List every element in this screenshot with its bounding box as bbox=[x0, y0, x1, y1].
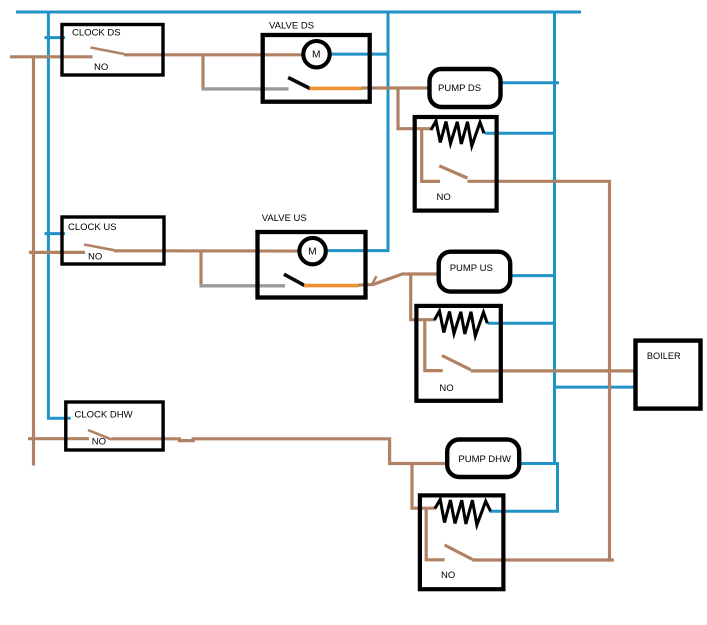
wire brown left vertical bus bbox=[32, 57, 35, 466]
wire blue VALVE DS motor to mid vertical bbox=[331, 53, 390, 56]
wire blue relay US coil to right bus bbox=[488, 322, 555, 325]
wire brown tee down to relay DS coil bbox=[398, 88, 432, 129]
wire brown relay US internal L to switch bbox=[425, 319, 443, 371]
wire gray into VALVE US switch bbox=[200, 284, 286, 287]
svg-text:NO: NO bbox=[88, 252, 102, 263]
svg-text:M: M bbox=[312, 50, 321, 61]
wire blue stub into CLOCK US bbox=[45, 232, 66, 235]
wire brown CLOCK US output to VALVE US motor bbox=[114, 249, 300, 252]
wire blue VALVE US motor to mid vertical bbox=[326, 249, 390, 252]
wire brown CLOCK DHW output segment with jog bbox=[112, 439, 449, 464]
boiler box bbox=[636, 341, 701, 409]
relay DS box bbox=[415, 117, 497, 211]
relay US coil bbox=[434, 311, 487, 336]
wire brown relay DS internal L to switch bbox=[422, 128, 440, 181]
wire blue PUMP US to right bus bbox=[510, 274, 557, 277]
valve US box bbox=[258, 232, 366, 298]
svg-text:PUMP US: PUMP US bbox=[450, 263, 493, 274]
relay DS coil bbox=[431, 121, 484, 146]
motor M valve DS bbox=[303, 41, 329, 67]
wire brown VALVE US output rising to PUMP US bbox=[358, 274, 439, 285]
clock DS box bbox=[62, 25, 163, 76]
wire brown relay US output to BOILER bbox=[471, 369, 637, 372]
wire brown row1 feed into CLOCK DS bbox=[10, 55, 93, 58]
svg-text:VALVE DS: VALVE DS bbox=[269, 21, 314, 32]
switch relay DS blade bbox=[439, 166, 467, 178]
wire brown VALVE DS output to PUMP DS bbox=[362, 86, 431, 89]
svg-text:CLOCK DHW: CLOCK DHW bbox=[75, 410, 133, 421]
valve DS box bbox=[263, 35, 370, 102]
pump US box bbox=[439, 252, 511, 292]
switch VALVE US blade bbox=[284, 274, 305, 285]
wire brown tee down to relay DHW coil bbox=[412, 464, 436, 509]
wire brown barb on hand-drawn US riser bbox=[373, 276, 377, 284]
wire orange VALVE US switch output bbox=[304, 284, 359, 288]
switch CLOCK DHW blade bbox=[88, 430, 112, 439]
svg-text:CLOCK US: CLOCK US bbox=[68, 222, 117, 233]
motor M valve US bbox=[299, 238, 325, 264]
switch CLOCK DS blade bbox=[91, 48, 125, 55]
svg-text:PUMP DHW: PUMP DHW bbox=[458, 454, 511, 465]
wire brown tee down to relay US coil bbox=[411, 274, 435, 320]
svg-text:NO: NO bbox=[437, 192, 451, 203]
svg-text:CLOCK DS: CLOCK DS bbox=[72, 28, 121, 39]
wire brown CLOCK DS output to VALVE DS motor bbox=[124, 53, 303, 56]
switch VALVE DS blade bbox=[288, 78, 310, 89]
wire blue mid vertical to valve motors bbox=[387, 11, 390, 251]
svg-text:M: M bbox=[308, 246, 317, 257]
wire blue PUMP DS to right bus bbox=[500, 81, 559, 84]
clock US box bbox=[62, 217, 164, 264]
wire gray into VALVE DS switch bbox=[202, 87, 289, 90]
wire brown row3 feed into CLOCK DHW bbox=[28, 437, 89, 440]
wire blue stub into CLOCK DS bbox=[45, 36, 66, 39]
wire brown relay DHW output to right brown bus bbox=[472, 558, 614, 561]
switch CLOCK US blade bbox=[84, 245, 114, 251]
svg-text:NO: NO bbox=[92, 437, 106, 448]
wire brown relay DS output to right brown bus bbox=[468, 181, 610, 561]
wire blue down from PUMP DHW junction to relay DHW coil bbox=[490, 464, 558, 512]
wire blue relay DS coil to right bus bbox=[485, 132, 555, 135]
wire blue left vertical with elbow into CLOCK DHW bbox=[48, 11, 70, 419]
svg-text:PUMP DS: PUMP DS bbox=[438, 83, 481, 94]
switch relay DHW blade bbox=[445, 545, 473, 559]
pump DHW box bbox=[447, 440, 519, 478]
pump DS box bbox=[430, 69, 501, 107]
wire blue top bus bbox=[16, 11, 581, 14]
wire blue right vertical bus bbox=[553, 11, 556, 466]
relay DHW box bbox=[420, 495, 504, 589]
wire blue right bus to BOILER bbox=[555, 386, 637, 389]
svg-text:BOILER: BOILER bbox=[647, 351, 681, 361]
svg-text:NO: NO bbox=[94, 62, 108, 73]
svg-text:NO: NO bbox=[441, 570, 455, 581]
clock DHW box bbox=[66, 402, 163, 450]
relay DHW coil bbox=[435, 500, 491, 526]
wire brown relay DHW internal L to switch bbox=[426, 508, 444, 560]
relay US box bbox=[416, 306, 500, 401]
switch relay US blade bbox=[442, 356, 471, 370]
wire brown tee down to gray valve DS feed bbox=[201, 55, 204, 89]
wire blue PUMP DHW to right bus bbox=[519, 462, 560, 465]
svg-text:VALVE US: VALVE US bbox=[262, 213, 307, 224]
wire orange VALVE DS switch output bbox=[310, 87, 363, 91]
wire brown row2 feed into CLOCK US bbox=[29, 251, 85, 254]
wire brown tee down to gray valve US feed bbox=[199, 251, 202, 286]
svg-text:NO: NO bbox=[439, 383, 453, 394]
